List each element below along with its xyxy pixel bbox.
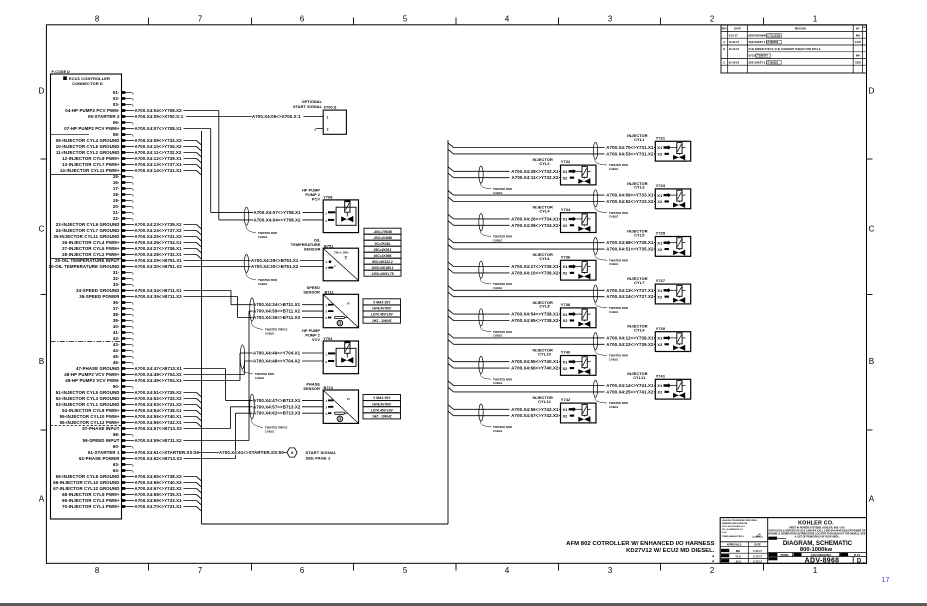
svg-text:04-HP PUMP2 PCV PWM-: 04-HP PUMP2 PCV PWM- [65,108,120,113]
svg-text:MH: MH [856,33,860,37]
svg-text:11-INJECTOR CYL2 GROUND: 11-INJECTOR CYL2 GROUND [56,150,120,155]
wire A700.X4:59<>B711.X2 [126,309,323,443]
connector X4 pin 31 [113,270,133,275]
svg-text:CYL3: CYL3 [634,185,645,190]
svg-text:2: 2 [327,128,329,132]
svg-text:SENSOR: SENSOR [303,387,320,391]
connector X4 pin 19 [113,198,133,203]
svg-text:CYL5: CYL5 [634,232,645,237]
svg-text:A700.X4:09<>Y734.X2: A700.X4:09<>Y734.X2 [135,138,183,143]
svg-text:2: 2 [710,15,714,24]
node P-CODE D label [52,70,71,74]
svg-text:REASON: REASON [795,27,806,31]
wire A700.X4:26<>Y734.X1 [448,214,454,219]
svg-text:A700.X4:67<>Y742.X2: A700.X4:67<>Y742.X2 [511,413,559,418]
svg-text:3: 3 [608,15,612,24]
connector X4 pin 59 SPEED INPUT [83,438,127,443]
connector X4 pin 58 [113,432,133,437]
svg-text:CABLE: CABLE [255,376,264,380]
harness bundle right bus wire [447,140,449,524]
svg-text:07-HP PUMP2 PCV PWM+: 07-HP PUMP2 PCV PWM+ [64,126,120,131]
svg-text:MH: MH [736,549,740,553]
connector X4 pin 27 INJECTOR CYL6 PWM+ [62,246,126,251]
svg-text:A700.X4:66<>Y740.X2: A700.X4:66<>Y740.X2 [511,366,559,371]
twisted pair cable marker [479,214,483,231]
twisted pair cable marker [593,237,597,254]
svg-text:X1: X1 [563,359,569,364]
svg-text:MH: MH [856,54,860,58]
svg-text:A700.X4:67<>Y742.X2: A700.X4:67<>Y742.X2 [135,486,183,491]
svg-text:EAR: EAR [855,40,861,44]
wire A700.X4:57<>B713.X2 [126,404,323,431]
svg-text:01-29-18: 01-29-18 [729,60,740,64]
svg-text:48-HP PUMP2 VCV PWM+: 48-HP PUMP2 VCV PWM+ [64,372,120,377]
svg-text:A700.X4:70<>Y731.X1: A700.X4:70<>Y731.X1 [135,504,183,509]
svg-text:SPEED: SPEED [307,286,321,290]
svg-text:35-SPEED POWER: 35-SPEED POWER [79,294,120,299]
svg-text:B: B [39,357,45,366]
svg-text:CYL11: CYL11 [633,375,646,380]
svg-text:06-: 06- [113,120,120,125]
connector X4 pin 26 INJECTOR CYL4 PWM+ [62,240,126,245]
svg-text:CONNECTOR D: CONNECTOR D [72,81,103,86]
wire A700.X4:70<>Y731.X1 (into bundle) [126,504,201,511]
svg-text:38-: 38- [113,312,120,317]
wire A700.X4:54<>Y738.X1 [448,310,454,315]
svg-text:A700.X4:07<>Y708.X1: A700.X4:07<>Y708.X1 [254,210,302,215]
svg-text:CABLE: CABLE [258,235,267,239]
svg-text:TWISTED PAIR: TWISTED PAIR [258,278,277,282]
svg-text:X2: X2 [657,199,663,204]
svg-text:43-: 43- [113,342,120,347]
svg-text:A700.X4:12<>Y739.X1: A700.X4:12<>Y739.X1 [135,156,183,161]
svg-text:UNLESS OTHERWISE SPECIFIED-: UNLESS OTHERWISE SPECIFIED- [722,520,758,522]
svg-text:A700.X4:11<>Y732.X2: A700.X4:11<>Y732.X2 [512,175,559,180]
wire A700.X4:10<>Y736.X2 (into bundle) [126,144,201,151]
svg-text:XX.X ±0.5 HOLES ±0.1: XX.X ±0.5 HOLES ±0.1 [722,526,746,528]
wire A700.X4:66<>Y740.X2 [448,364,454,369]
svg-text:A700.X4:56<>Y742.X1: A700.X4:56<>Y742.X1 [511,407,559,412]
wire A700.X4:35<>B711.X3 [126,294,323,320]
connector X4 pin 44 [113,348,133,353]
wire A700.X4:27<>Y736.X1 (into bundle) [126,246,201,253]
svg-text:A700.X4:05<>X700.S:1: A700.X4:05<>X700.S:1 [135,114,184,119]
svg-text:67-INJECTOR CYL12 GROUND: 67-INJECTOR CYL12 GROUND [53,486,119,491]
svg-text:CABLE: CABLE [493,334,502,338]
svg-text:A700.X4:56<>Y742.X1: A700.X4:56<>Y742.X1 [135,420,183,425]
wire A700.X4:13<>Y737.X1 [448,286,454,291]
svg-text:A700.X4:69<>Y733.X1: A700.X4:69<>Y733.X1 [135,498,183,503]
wire A700.X4:48<>Y704.X2 [126,359,323,378]
svg-text:SEE PAGE 2: SEE PAGE 2 [306,456,332,461]
svg-text:2: 2 [710,566,714,575]
svg-text:1: 1 [813,15,817,24]
svg-text:BY: BY [856,27,860,31]
svg-text:X2: X2 [563,318,569,323]
zone letters right [869,87,875,504]
svg-text:A700.X4:59<>B711.X2: A700.X4:59<>B711.X2 [253,309,301,314]
svg-text:D: D [857,559,862,565]
wire A700.X4:12<>Y739.X1 [448,333,454,338]
svg-text:05-STARTER 2: 05-STARTER 2 [88,114,120,119]
connector X4 pin 09 INJECTOR CYL4 GROUND [56,138,126,143]
wire A700.X4:69<>Y733.X1 [448,191,454,196]
svg-text:CABLE: CABLE [493,191,502,195]
connector X4 pin 68 INJECTOR CYL5 PWM+ [62,492,126,497]
svg-text:X1: X1 [563,264,569,269]
connector X4 pin 30 OIL TEMPERATURE GROUND [49,264,127,269]
connector X4 pin 38 [113,312,133,317]
svg-text:HP PUMP: HP PUMP [302,188,320,192]
svg-text:B: B [869,357,875,366]
injector Y736 (CYL6) [448,252,596,290]
connector X4 pin 62 PHASE POWER [79,456,126,461]
svg-text:B711: B711 [325,290,334,294]
wire A700.X4:51<>Y735.X2 (into bundle) [126,390,201,397]
svg-text:0C=7K281: 0C=7K281 [375,242,391,246]
svg-text:CABLE: CABLE [609,167,618,171]
svg-text:09-INJECTOR CYL4 GROUND: 09-INJECTOR CYL4 GROUND [56,138,120,143]
connector X4 pin 07 HP PUMP2 PCV PWM+ [64,126,126,131]
svg-text:A700.X4:51<>Y735.X2: A700.X4:51<>Y735.X2 [606,247,654,252]
svg-text:37-: 37- [113,306,120,311]
svg-text:01-: 01- [113,90,120,95]
wire A700.X4:25<>Y741.X2 (into bundle) [126,234,201,241]
connector X4 pin 37 [113,306,133,311]
wire A700.X4:55<>Y740.X1 (into bundle) [126,414,201,421]
twisted pair cable marker [244,255,277,286]
wire A700.X4:10<>Y736.X2 [448,268,454,273]
svg-text:Y737: Y737 [656,278,666,283]
svg-text:5: 5 [403,15,408,24]
svg-text:6: 6 [300,15,304,24]
svg-text:D: D [869,87,875,96]
svg-text:08-: 08- [113,132,120,137]
connector X4 pin 25 INJECTOR CYL11 GROUND [53,234,126,239]
svg-text:CYL8: CYL8 [539,304,550,309]
svg-text:A: A [869,495,875,504]
svg-text:CABLE: CABLE [609,357,618,361]
zone numbers top [95,15,817,24]
svg-text:14-INJECTOR CYL11 PWM+: 14-INJECTOR CYL11 PWM+ [60,168,120,173]
svg-text:A700.X4:07<>Y708.X1: A700.X4:07<>Y708.X1 [135,126,183,131]
svg-text:TWISTED PAIR: TWISTED PAIR [493,282,512,286]
svg-text:A700.X4:14<>Y741.X1: A700.X4:14<>Y741.X1 [135,168,183,173]
svg-text:A700.X4:12<>Y739.X1: A700.X4:12<>Y739.X1 [606,335,654,340]
svg-text:V MAX 20V: V MAX 20V [373,301,391,305]
svg-text:1: 1 [813,566,817,575]
wire A700.X4:70<>Y731.X1 [448,143,454,148]
injector Y735 (CYL5) [448,228,691,266]
svg-text:A700.X4:04<>Y708.X2: A700.X4:04<>Y708.X2 [135,108,183,113]
svg-text:49-HP PUMP2 VCV PWM-: 49-HP PUMP2 VCV PWM- [65,378,120,383]
svg-text:A LIST OF PRINCIPALS IN YOUR A: A LIST OF PRINCIPALS IN YOUR AREA. [794,536,839,539]
connector X4 pin 14 INJECTOR CYL11 PWM+ [60,168,126,173]
svg-text:56-INJECTOR CYL12 PWM+: 56-INJECTOR CYL12 PWM+ [60,420,120,425]
svg-text:X2: X2 [657,342,663,347]
harness bundle bottom wire [202,523,449,525]
svg-text:26-INJECTOR CYL4 PWM+: 26-INJECTOR CYL4 PWM+ [62,240,120,245]
svg-text:CABLE: CABLE [609,262,618,266]
wire A700.X4:52<>Y733.X2 [448,197,454,202]
connector X4 pin 63 [113,462,133,467]
svg-text:1HZ - 10KHZ: 1HZ - 10KHZ [372,319,392,323]
svg-text:START SIGNAL: START SIGNAL [293,105,323,109]
wire A700.X4:66<>Y740.X2 (into bundle) [126,480,201,487]
wire A700.X4:23<>Y739.X2 (into bundle) [126,222,201,229]
svg-text:X1: X1 [563,312,569,317]
svg-text:60-: 60- [113,444,120,449]
injector Y731 (CYL1) [448,133,691,171]
svg-text:3: 3 [608,566,612,575]
connector X4 pin 69 INJECTOR CYL3 PWM+ [62,498,126,503]
svg-text:Y739: Y739 [656,326,666,331]
svg-text:7: 7 [198,566,202,575]
svg-text:A700.X4:55<>Y740.X1: A700.X4:55<>Y740.X1 [511,359,559,364]
connector X4 pin 42 [113,336,133,341]
svg-text:A700.X4:24<>Y737.X2: A700.X4:24<>Y737.X2 [606,294,654,299]
wire A700.X4:65<>Y738.X2 (into bundle) [126,474,201,481]
wire A700.X4:14<>Y741.X1 [448,381,454,386]
svg-text:A700.X4:30<>B751.X2: A700.X4:30<>B751.X2 [251,264,299,269]
svg-text:A700.X4:26<>Y734.X1: A700.X4:26<>Y734.X1 [135,240,183,245]
wire A700.X4:53<>Y731.X2 (into bundle) [126,402,201,409]
svg-text:CABLE: CABLE [493,238,502,242]
connector X4 pin 05 STARTER 2 [88,114,126,119]
svg-text:X1: X1 [657,193,663,198]
svg-text:A700.X4:57<>B713.X2: A700.X4:57<>B713.X2 [135,426,183,431]
svg-text:Y733: Y733 [656,183,666,188]
injector Y732 (CYL2) [448,157,596,195]
injector Y738 (CYL8) [448,300,596,338]
wire A700.X4:11<>Y732.X2 (into bundle) [126,150,201,157]
wire A700.X4:30<>B751.X2 [126,264,323,269]
svg-text:Y742: Y742 [561,397,571,402]
connector X4 pin 46 [113,360,133,365]
svg-text:C: C [869,225,875,234]
svg-text:P-CODE D: P-CODE D [52,70,71,74]
svg-text:A700.X4:05<>X700.S:1: A700.X4:05<>X700.S:1 [252,114,301,119]
svg-text:A700.X4:51<>Y735.X2: A700.X4:51<>Y735.X2 [135,390,183,395]
wire A700.X4:68<>Y735.X1 (into bundle) [126,492,201,499]
svg-text:TWISTED PAIR: TWISTED PAIR [493,377,512,381]
twisted pair cable marker [250,394,288,433]
svg-text:A700.X4:62<>B713.X3: A700.X4:62<>B713.X3 [135,456,183,461]
twisted pair cable marker [240,345,274,380]
svg-text:HI=8.4V-50V: HI=8.4V-50V [372,307,392,311]
svg-text:V MAX 20V: V MAX 20V [373,396,391,400]
svg-text:A700.X4:35<>B711.X3: A700.X4:35<>B711.X3 [135,294,183,299]
wire A700.X4:26<>Y734.X1 (into bundle) [126,240,201,247]
svg-text:CABLE: CABLE [265,429,274,433]
svg-text:X ±2: X ±2 [722,532,727,534]
svg-text:A700.X4:61<>STARTER.SS:50: A700.X4:61<>STARTER.SS:50 [219,450,284,455]
wire A700.X4:34<>B711.X1 [126,288,323,307]
svg-text:Y738: Y738 [561,302,571,307]
connector X4 pin 18 [113,192,133,197]
svg-text:25-INJECTOR CYL11 GROUND: 25-INJECTOR CYL11 GROUND [53,234,119,239]
connector X4 pin 66 INJECTOR CYL10 GROUND [53,480,126,485]
svg-text:OPTIONAL: OPTIONAL [302,100,323,104]
svg-text:PHASE: PHASE [306,383,320,387]
svg-text:53-INJECTOR CYL1 GROUND: 53-INJECTOR CYL1 GROUND [56,402,120,407]
svg-text:PUMP 2: PUMP 2 [305,193,320,197]
svg-text:59-SPEED INPUT: 59-SPEED INPUT [83,438,120,443]
svg-text:70-INJECTOR CYL1 PWM+: 70-INJECTOR CYL1 PWM+ [62,504,120,509]
connector X4 pin 22 [113,216,133,221]
svg-text:64-: 64- [113,468,120,473]
svg-text:A700.X4:55<>Y740.X1: A700.X4:55<>Y740.X1 [135,414,183,419]
wire A700.X4:49<>Y704.X1 [126,351,323,384]
connector X4 pin 51 INJECTOR CYL5 GROUND [56,390,126,395]
svg-text:36-: 36- [113,300,120,305]
svg-text:A700.X4:25<>Y741.X2: A700.X4:25<>Y741.X2 [135,234,183,239]
svg-text:20-: 20- [113,204,120,209]
svg-text:16-: 16- [113,180,120,185]
svg-text:TWISTED PAIR: TWISTED PAIR [609,163,628,167]
twisted pair cable marker [593,190,597,207]
connector X700.S optional start signal [293,100,346,134]
svg-text:XX ±1 SURFACE 3.2: XX ±1 SURFACE 3.2 [722,528,743,531]
revision table [721,25,867,73]
twisted pair cable marker [479,166,483,183]
svg-text:8: 8 [95,566,99,575]
sensor B713 phase [303,383,358,424]
wire A700.X4:24<>Y737.X2 (into bundle) [126,228,201,235]
svg-text:40C=1K598: 40C=1K598 [374,254,392,258]
svg-text:AFM 802 COTROLLER W/ ENHANCED: AFM 802 COTROLLER W/ ENHANCED I/O HARNES… [566,541,714,547]
svg-text:5-15-17: 5-15-17 [753,549,762,553]
svg-text:A700.X4:69<>Y733.X1: A700.X4:69<>Y733.X1 [606,193,654,198]
svg-text:TWISTED PAIR: TWISTED PAIR [493,330,512,334]
wire A700.X4:27<>Y736.X1 [448,262,454,267]
svg-text:45-: 45- [113,354,120,359]
svg-text:LO=0.45V-10V: LO=0.45V-10V [371,408,394,412]
wire A700.X4:24<>Y737.X2 [448,292,454,297]
wire A700.X4:28<>Y732.X1 [448,167,454,172]
svg-text:A700.X4:48<>Y704.X2: A700.X4:48<>Y704.X2 [253,359,301,364]
svg-text:A700.X4:59<>B711.X2: A700.X4:59<>B711.X2 [135,438,183,443]
svg-text:X1: X1 [563,407,569,412]
svg-text:CABLE: CABLE [609,405,618,409]
svg-text:68-INJECTOR CYL5 PWM+: 68-INJECTOR CYL5 PWM+ [62,492,120,497]
svg-text:ADV-8968: ADV-8968 [805,557,840,564]
svg-text:A700.X4:11<>Y732.X2: A700.X4:11<>Y732.X2 [135,150,182,155]
twisted pair cable marker [593,142,597,159]
svg-text:A700.X4:23<>Y739.X2: A700.X4:23<>Y739.X2 [606,342,654,347]
connector X4 pin 49 HP PUMP2 VCV PWM- [65,378,126,383]
connector X4 pin 48 HP PUMP2 VCV PWM+ [64,372,126,377]
svg-text:66-INJECTOR CYL10 GROUND: 66-INJECTOR CYL10 GROUND [53,480,119,485]
svg-text:A700.X4:04<>Y708.X2: A700.X4:04<>Y708.X2 [254,217,302,222]
sheet border frame [46,25,866,564]
svg-text:X2: X2 [657,247,663,252]
wire A700.X4:14<>Y741.X1 (into bundle) [126,168,201,175]
svg-text:D: D [39,87,45,96]
svg-text:A700.X4:70<>Y731.X1: A700.X4:70<>Y731.X1 [606,145,654,150]
connector X4 pin 16 [113,180,133,185]
twisted pair cable marker [479,309,483,326]
svg-text:A700.X4:65<>Y738.X2: A700.X4:65<>Y738.X2 [511,318,559,323]
connector X4 pin 02 [113,96,133,101]
connector X4 pin 54 INJECTOR CYL8 PWM+ [62,408,126,413]
wire A700.X4:55<>Y740.X1 [448,357,454,362]
svg-text:X2: X2 [563,413,569,418]
svg-text:A700.X4:66<>Y740.X2: A700.X4:66<>Y740.X2 [135,480,183,485]
svg-text:100C=0K180.1: 100C=0K180.1 [371,266,393,270]
svg-text:LO=0.45V-10V: LO=0.45V-10V [371,313,394,317]
svg-text:X2: X2 [657,152,663,157]
svg-text:CABLE: CABLE [609,310,618,314]
connector X4 pin 43 [113,342,133,347]
twisted pair cable marker [593,285,597,302]
connector X4 pin 47 PHASE GROUND [76,366,126,371]
connector X4 pin 20 [113,204,133,209]
harness bundle left bus wire [201,131,203,524]
twisted pair cable marker [250,298,288,335]
svg-text:A700.X4:47<>B713.X1: A700.X4:47<>B713.X1 [135,366,183,371]
connector X4 pin 08 [113,132,133,137]
wire A700.X4:28<>Y732.X1 (into bundle) [126,252,201,259]
svg-text:17-: 17- [113,186,120,191]
wire A700.X4:12<>Y739.X1 (into bundle) [126,156,201,163]
svg-text:A700.X4:62<>B713.X3: A700.X4:62<>B713.X3 [253,411,301,416]
svg-text:A700.X4:29<>B751.X1: A700.X4:29<>B751.X1 [251,258,299,263]
svg-text:5-17-17: 5-17-17 [753,560,762,564]
connector X4 pin 17 [113,186,133,191]
svg-text:CYL6: CYL6 [539,256,550,261]
svg-text:12-INJECTOR CYL9 PWM+: 12-INJECTOR CYL9 PWM+ [62,156,120,161]
svg-text:18-: 18- [113,192,120,197]
connector X4 pin 56 INJECTOR CYL12 PWM+ [60,420,126,425]
svg-text:B: B [723,47,725,51]
wire A700.X4:51<>Y735.X2 [448,245,454,250]
connector X4 pin 13 INJECTOR CYL7 PWM+ [62,162,126,167]
svg-text:A700.X4:68<>Y735.X1: A700.X4:68<>Y735.X1 [135,492,183,497]
svg-text:TLA: TLA [735,555,740,559]
svg-text:C: C [723,60,725,64]
svg-text:65-INJECTOR CYL8 GROUND: 65-INJECTOR CYL8 GROUND [56,474,120,479]
connector X4 pin 36 [113,300,133,305]
connector X4 pin 24 INJECTOR CYL7 GROUND [56,228,126,233]
svg-text:25C=2K513: 25C=2K513 [374,248,392,252]
valve Y708 HP pump pump 2 PCV [302,188,358,232]
connector X4 pin 53 INJECTOR CYL1 GROUND [56,402,126,407]
svg-text:29-OIL TEMPERATURE INPUT: 29-OIL TEMPERATURE INPUT [55,258,120,263]
svg-text:A700.X4:52<>Y733.X2: A700.X4:52<>Y733.X2 [135,396,183,401]
svg-text:58-: 58- [113,432,120,437]
svg-text:46-: 46- [113,360,120,365]
connector X4 pin 12 INJECTOR CYL9 PWM+ [62,156,126,161]
svg-text:TWISTED PAIR: TWISTED PAIR [493,187,512,191]
svg-text:19-: 19- [113,198,120,203]
svg-text:A700.X4:24<>Y737.X2: A700.X4:24<>Y737.X2 [135,228,183,233]
zone letters left [39,87,45,504]
svg-text:A700.X4:09<>Y734.X2: A700.X4:09<>Y734.X2 [511,223,559,228]
svg-text:X1: X1 [657,288,663,293]
svg-text:A700.X4:13<>Y737.X1: A700.X4:13<>Y737.X1 [135,162,183,167]
wire A700.X4:54<>Y738.X1 (into bundle) [126,408,201,415]
connector X4 pin 04 HP PUMP2 PCV PWM- [65,108,126,113]
svg-text:A700.X4:49<>Y704.X1: A700.X4:49<>Y704.X1 [253,351,301,356]
wire A700.X4:47<>B713.X1 [126,366,323,403]
svg-text:31-: 31- [113,270,120,275]
svg-text:SENSOR: SENSOR [304,247,321,251]
connector X4 pin 06 [113,120,133,125]
svg-text:CYL9: CYL9 [634,328,645,333]
svg-text:62-PHASE POWER: 62-PHASE POWER [79,456,120,461]
svg-text:X1: X1 [563,217,569,222]
